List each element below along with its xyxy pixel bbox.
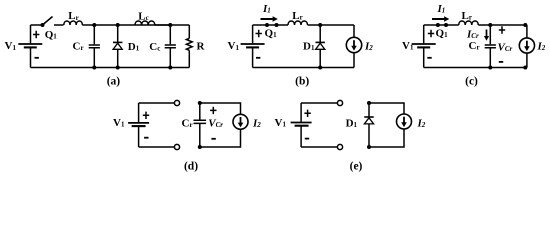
battery V1 long plate xyxy=(291,122,312,124)
wire left vertical below battery xyxy=(138,127,140,147)
wire Cr branch lower xyxy=(199,124,201,147)
switch Q1 blade xyxy=(43,17,53,26)
wire Cr branch upper xyxy=(199,103,201,120)
current source I2 circle xyxy=(346,37,361,52)
node bottom D1 xyxy=(318,66,322,70)
battery minus sign xyxy=(256,57,260,59)
node top Cr xyxy=(92,23,96,27)
current arrow I1 xyxy=(432,18,444,20)
svg-text:R: R xyxy=(197,41,206,53)
battery plus sign xyxy=(143,112,149,119)
VCr plus sign xyxy=(210,107,216,114)
current source I2 circle xyxy=(233,114,248,129)
wire Cc branch upper xyxy=(169,25,171,44)
wire source bottom xyxy=(200,129,241,147)
capacitor Cr plates xyxy=(485,45,496,48)
wire Cr branch lower xyxy=(489,49,491,68)
wire right vertical above resistor xyxy=(188,25,190,38)
wire D1 branch upper xyxy=(117,25,119,42)
wire Cc branch lower xyxy=(169,49,171,68)
wire Lr to right corner xyxy=(82,24,189,26)
battery plus sign xyxy=(256,30,262,37)
current source I2 arrow xyxy=(240,117,242,123)
terminal bottom circle xyxy=(337,144,342,149)
resistor R zigzag xyxy=(186,38,192,50)
wire left vertical above battery xyxy=(138,103,140,122)
svg-text:(d): (d) xyxy=(184,161,198,173)
wire Lr to right corner xyxy=(308,24,355,26)
wire D1 branch upper xyxy=(368,103,370,117)
diode D1 triangle xyxy=(364,118,373,124)
battery V1 short plate xyxy=(132,125,146,127)
wire bottom xyxy=(424,67,527,69)
wire top to terminal xyxy=(139,102,175,104)
svg-text:(e): (e) xyxy=(350,161,363,173)
wire Cr branch upper xyxy=(489,25,491,44)
VCr minus sign xyxy=(211,138,215,140)
svg-text:(c): (c) xyxy=(465,76,478,88)
node top Cr xyxy=(488,23,492,27)
switch contact dot right xyxy=(444,23,448,27)
current arrow I1 xyxy=(261,18,273,20)
battery minus sign xyxy=(144,137,148,139)
svg-text:(b): (b) xyxy=(295,76,309,88)
wire left vertical below battery xyxy=(423,48,425,68)
wire source bottom xyxy=(369,129,404,147)
battery V1 long plate xyxy=(412,43,436,45)
diode D1 cathode bar xyxy=(113,41,122,43)
current source I2 arrow xyxy=(403,117,405,123)
diode D1 triangle xyxy=(113,43,122,49)
battery V1 short plate xyxy=(417,46,430,48)
current source I2 circle xyxy=(397,114,412,129)
wire right down to source xyxy=(353,25,355,37)
node bottom D1 xyxy=(116,66,120,70)
battery minus sign xyxy=(35,57,39,59)
battery plus sign xyxy=(428,30,434,37)
switch contact dot left xyxy=(436,23,440,27)
inductor Lc coil xyxy=(135,21,155,25)
wire left vertical below battery xyxy=(300,126,302,147)
node top D1 xyxy=(318,23,322,27)
capacitor Cr plates xyxy=(89,45,100,48)
switch contact dot xyxy=(41,23,45,27)
diode D1 cathode bar xyxy=(364,116,373,118)
terminal bottom circle xyxy=(174,144,179,149)
wire Lr to right corner xyxy=(478,24,527,26)
terminal top circle xyxy=(337,100,342,105)
battery minus sign xyxy=(427,57,431,59)
current arrow ICr xyxy=(486,30,488,37)
node top D1 xyxy=(116,23,120,27)
current source I2 arrow xyxy=(526,41,528,47)
wire right down to source xyxy=(526,25,528,38)
terminal top circle xyxy=(174,100,179,105)
battery V1 short plate xyxy=(295,125,309,127)
wire bottom to terminal xyxy=(301,146,337,148)
switch contact dot right xyxy=(275,23,279,27)
node top D1 xyxy=(367,101,371,105)
current source I2 arrow xyxy=(353,40,355,46)
wire top battery to Lr xyxy=(424,24,459,26)
switch contact dot left xyxy=(265,23,269,27)
battery plus sign xyxy=(304,110,310,117)
wire left vertical below battery xyxy=(252,48,254,68)
wire bottom xyxy=(31,67,190,69)
node bottom right xyxy=(523,66,527,70)
node bottom Cr xyxy=(488,66,492,70)
wire D1 top to source xyxy=(369,103,404,114)
wire bottom to terminal xyxy=(139,146,175,148)
wire Cr top to source xyxy=(200,103,241,114)
VCr plus sign xyxy=(499,26,505,33)
battery V1 long plate xyxy=(241,43,265,45)
wire top to terminal xyxy=(301,102,337,104)
node bottom Cr xyxy=(198,145,202,149)
node bottom Cc xyxy=(168,66,172,70)
wire Lc right gap patch xyxy=(155,24,171,26)
node bottom D1 xyxy=(367,145,371,149)
wire switch to Lr xyxy=(54,24,64,26)
battery V1 long plate xyxy=(18,43,42,45)
diode D1 triangle xyxy=(316,43,325,49)
svg-text:(a): (a) xyxy=(107,76,121,88)
wire D1 branch lower xyxy=(117,49,119,67)
battery plus sign xyxy=(33,31,39,38)
wire Cr branch upper xyxy=(93,25,95,44)
battery V1 short plate xyxy=(246,46,259,48)
node top right xyxy=(523,23,527,27)
capacitor Cc plates xyxy=(165,45,176,48)
wire D1 branch lower xyxy=(368,124,370,147)
wire right vertical below resistor xyxy=(188,50,190,67)
battery V1 short plate xyxy=(24,46,37,48)
wire top battery to Lr xyxy=(253,24,288,26)
inductor Lr coil xyxy=(459,21,479,25)
wire D1 branch upper xyxy=(319,25,321,42)
battery minus sign xyxy=(305,138,309,140)
diode D1 cathode bar xyxy=(316,41,325,43)
inductor Lr coil xyxy=(64,21,83,25)
wire bottom xyxy=(253,67,354,69)
inductor Lr coil xyxy=(288,21,308,25)
node top Cc xyxy=(168,23,172,27)
wire source to bottom xyxy=(353,53,355,68)
VCr minus sign xyxy=(499,61,503,63)
node bottom Cr xyxy=(92,66,96,70)
wire left vertical above battery xyxy=(252,25,254,43)
wire left vertical above battery xyxy=(30,25,32,43)
wire source to bottom xyxy=(526,53,528,67)
wire Cr branch lower xyxy=(93,49,95,68)
wire top left corner to switch xyxy=(31,24,44,26)
wire left vertical below battery xyxy=(30,48,32,68)
wire D1 branch lower xyxy=(319,49,321,67)
current source I2 circle xyxy=(519,38,534,53)
battery V1 long plate xyxy=(128,122,149,124)
wire left vertical above battery xyxy=(423,25,425,43)
capacitor Cr plates xyxy=(194,120,207,123)
node top Cr xyxy=(198,101,202,105)
wire left vertical above battery xyxy=(300,103,302,122)
